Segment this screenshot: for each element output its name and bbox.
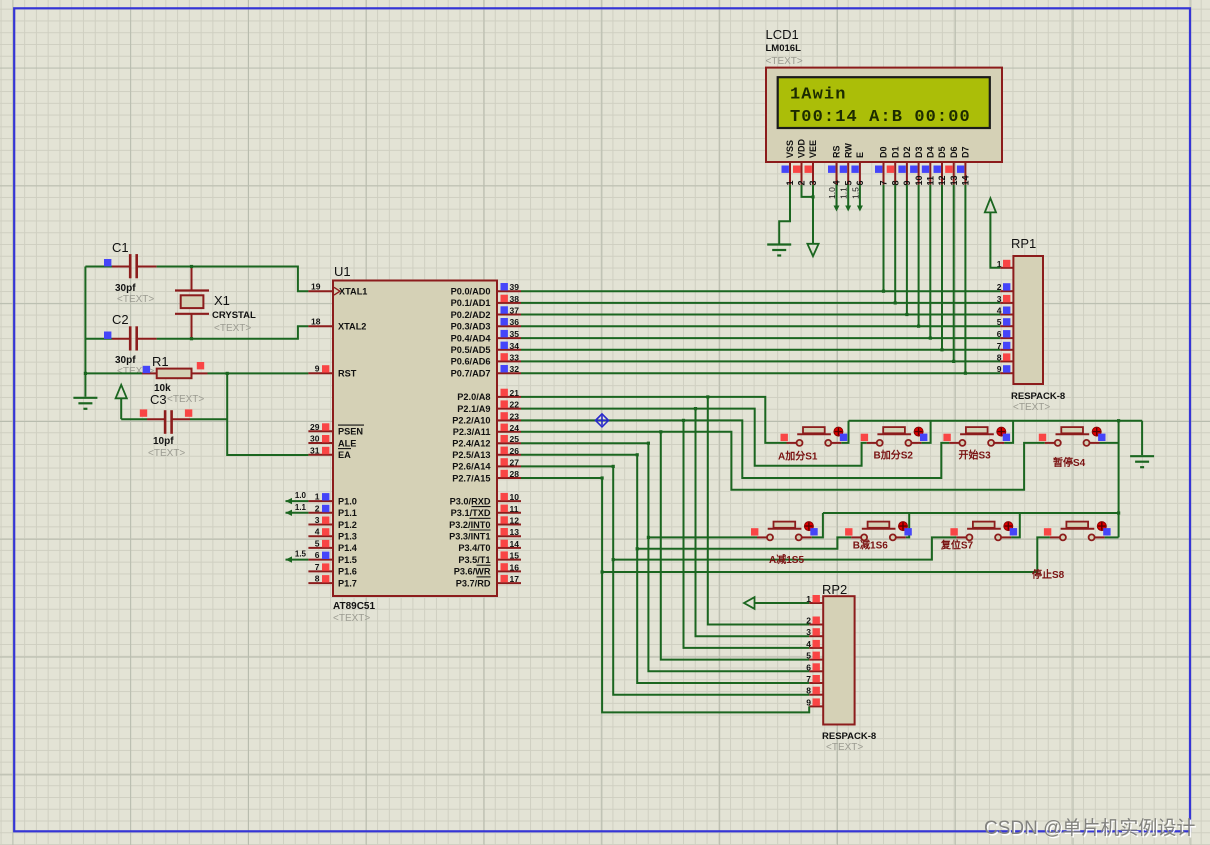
svg-text:P3.2/INT0: P3.2/INT0	[449, 520, 490, 530]
wire P2.4 to S5	[521, 442, 648, 444]
svg-text:PSEN: PSEN	[338, 427, 363, 437]
ground (left rail)	[73, 398, 97, 409]
svg-text:P3.1/TXD: P3.1/TXD	[451, 508, 491, 518]
U1 pin 25 P2.4/A12	[497, 442, 521, 444]
svg-text:P0.4/AD4: P0.4/AD4	[451, 333, 492, 343]
svg-text:C2: C2	[112, 312, 129, 327]
svg-text:D4: D4	[926, 146, 936, 158]
svg-text:21: 21	[510, 388, 520, 398]
wire P2.5 to S6 (via row 548.8)	[521, 454, 637, 456]
U1 pin 27 P2.6/A14	[497, 465, 521, 467]
U1 pin 13 P3.3/INT1	[497, 535, 521, 537]
wire S4 right to common vertical	[1100, 442, 1119, 444]
U1 pin 30 ALE	[308, 442, 333, 444]
svg-text:P3.7/RD: P3.7/RD	[456, 578, 491, 588]
wire P2.2 feeder to RP2 pin 4	[684, 420, 810, 648]
svg-text:P1.7: P1.7	[338, 578, 357, 588]
svg-text:17: 17	[510, 574, 520, 584]
input terminal (left arrow, RP2 pin1)	[754, 602, 809, 604]
push button S7	[950, 522, 1017, 541]
svg-text:28: 28	[510, 469, 520, 479]
svg-text:8: 8	[997, 352, 1002, 362]
net label 1.5 terminal wire	[286, 559, 309, 561]
svg-text:暂停S4: 暂停S4	[1053, 456, 1086, 469]
wire LCD D3 to P0.3 bus	[918, 185, 920, 327]
svg-text:AT89C51: AT89C51	[333, 601, 375, 612]
svg-text:P3.4/T0: P3.4/T0	[458, 543, 490, 553]
svg-text:<TEXT>: <TEXT>	[117, 294, 154, 305]
U1 pin 31 EA	[308, 454, 333, 456]
svg-text:37: 37	[510, 306, 520, 316]
svg-text:13: 13	[510, 527, 520, 537]
svg-text:12: 12	[510, 516, 520, 526]
svg-text:22: 22	[510, 400, 520, 410]
svg-text:LCD1: LCD1	[766, 27, 799, 42]
svg-text:35: 35	[510, 329, 520, 339]
wire C2 row to XTAL2	[85, 338, 112, 340]
svg-text:33: 33	[510, 352, 520, 362]
wire EA branch	[227, 373, 308, 455]
svg-text:P2.4/A12: P2.4/A12	[452, 439, 490, 449]
wire left ground rail	[84, 267, 86, 397]
wire P0.3 row to RP1 pin 5	[521, 325, 1000, 327]
RP1 pin 7	[1000, 349, 1013, 351]
RP2 pin 6	[809, 670, 823, 672]
svg-text:P0.7/AD7: P0.7/AD7	[451, 369, 491, 379]
svg-text:4: 4	[997, 306, 1002, 316]
ground (button bus)	[1130, 456, 1154, 467]
svg-text:<TEXT>: <TEXT>	[167, 394, 204, 405]
U1 pin 38 P0.1/AD1	[497, 302, 521, 304]
push button S4	[1039, 427, 1106, 446]
RP1 pin 2	[1000, 290, 1013, 292]
wire P0.1 row to RP1 pin 3	[521, 302, 1000, 304]
U1 pin 29 PSEN	[308, 430, 333, 432]
svg-text:1.1: 1.1	[839, 187, 849, 199]
svg-text:U1: U1	[334, 264, 351, 279]
RP2 pin 9	[809, 705, 823, 707]
respack RP1 RESPACK-8 body	[1013, 256, 1043, 384]
U1 pin 23 P2.2/A10	[497, 419, 521, 421]
svg-text:P1.6: P1.6	[338, 567, 357, 577]
LCD1 pin 2 VDD	[801, 162, 803, 185]
wire LCD D7 to P0.7 bus	[964, 185, 966, 374]
RP2 pin 4	[809, 647, 823, 649]
wire P2.6 to S7 (via row 559.6)	[521, 465, 613, 467]
wire LCD D2 to P0.2 bus	[906, 185, 908, 315]
LCD1 pin 12 D5	[941, 162, 943, 185]
U1 pin 18 XTAL2	[308, 325, 333, 327]
wire LCD D5 to P0.5 bus	[941, 185, 943, 350]
svg-text:P1.2: P1.2	[338, 520, 357, 530]
svg-text:9: 9	[315, 364, 320, 374]
svg-text:13: 13	[949, 175, 959, 185]
svg-text:P2.2/A10: P2.2/A10	[452, 416, 490, 426]
svg-text:15: 15	[510, 551, 520, 561]
svg-text:P1.1: P1.1	[338, 508, 357, 518]
wire S5 right riser	[812, 513, 823, 537]
svg-text:32: 32	[510, 364, 520, 374]
svg-text:A加分S1: A加分S1	[778, 450, 818, 463]
svg-text:14: 14	[961, 175, 971, 185]
svg-text:<TEXT>: <TEXT>	[214, 323, 251, 334]
wire S8 right to common vertical	[1105, 536, 1119, 538]
svg-text:C1: C1	[112, 240, 129, 255]
svg-text:3: 3	[315, 515, 320, 525]
wire S5 row from feeder	[648, 536, 757, 538]
wire LCD VEE to power (down arrow)	[812, 185, 814, 244]
wire P2.4 feeder to RP2 pin 6	[648, 443, 809, 671]
wire RST row	[85, 372, 142, 374]
U1 pin 12 P3.2/INT0	[497, 524, 521, 526]
svg-text:27: 27	[510, 457, 520, 467]
svg-text:R1: R1	[152, 354, 169, 369]
wire P0.5 row to RP1 pin 7	[521, 349, 1000, 351]
U1 pin 24 P2.3/A11	[497, 431, 521, 433]
junction	[647, 536, 650, 539]
svg-text:P3.3/INT1: P3.3/INT1	[449, 532, 490, 542]
svg-text:7: 7	[315, 562, 320, 572]
wire LCD RW net 1.1	[847, 185, 849, 210]
U1 pin 28 P2.7/A15	[497, 477, 521, 479]
capacitor C3	[121, 418, 147, 420]
RP2 pin 2	[809, 624, 823, 626]
U1 pin 19 XTAL1	[308, 290, 333, 292]
capacitor C2	[130, 326, 137, 350]
svg-text:34: 34	[510, 341, 520, 351]
svg-text:1.1: 1.1	[295, 503, 307, 512]
svg-text:36: 36	[510, 317, 520, 327]
svg-text:9: 9	[806, 697, 811, 707]
svg-text:D2: D2	[902, 146, 912, 158]
svg-text:P0.2/AD2: P0.2/AD2	[451, 310, 491, 320]
svg-text:16: 16	[510, 562, 520, 572]
respack RP2 RESPACK-8 body	[823, 596, 854, 724]
RP2 pin 1	[809, 602, 823, 604]
svg-text:1.5: 1.5	[295, 550, 307, 559]
svg-text:29: 29	[310, 422, 320, 432]
svg-text:12: 12	[937, 175, 947, 185]
RP1 pin 8	[1000, 360, 1013, 362]
junction	[636, 547, 639, 550]
LCD1 pin 10 D3	[918, 162, 920, 185]
ground (LCD VSS)	[767, 245, 791, 256]
origin marker (blue diamond on P2.2 wire)	[596, 414, 609, 427]
wire S6 right riser	[906, 513, 909, 537]
RP2 pin 5	[809, 659, 823, 661]
junction	[601, 570, 604, 573]
svg-text:1Awin: 1Awin	[790, 86, 847, 105]
LCD1 pin 13 D6	[953, 162, 955, 185]
svg-text:<TEXT>: <TEXT>	[333, 613, 370, 624]
wire P0.7 row to RP1 pin 9	[521, 372, 1000, 374]
crystal X1	[191, 267, 193, 291]
U1 pin 15 P3.5/T1	[497, 559, 521, 561]
U1 pin 32 P0.7/AD7	[497, 372, 521, 374]
svg-text:24: 24	[510, 423, 520, 433]
svg-text:LM016L: LM016L	[766, 43, 802, 54]
wire LCD D6 to P0.6 bus	[953, 185, 955, 362]
svg-text:5: 5	[315, 538, 320, 548]
svg-text:18: 18	[311, 317, 321, 327]
svg-text:复位S7: 复位S7	[940, 539, 974, 552]
wire P2.0 feeder to RP2 pin 2	[708, 397, 809, 625]
wire ground drop (top bus)	[1141, 421, 1143, 456]
svg-text:ALE: ALE	[338, 438, 356, 448]
RP2 pin 8	[809, 694, 823, 696]
mcu U1 AT89C51 body	[333, 281, 497, 597]
wire P2.1 to S2 (via row 465.8)	[521, 409, 867, 466]
svg-text:26: 26	[510, 446, 520, 456]
svg-text:9: 9	[997, 364, 1002, 374]
svg-text:P3.0/RXD: P3.0/RXD	[450, 496, 491, 506]
wire top ground bus	[849, 420, 1143, 422]
wire right common vertical	[1118, 421, 1120, 538]
svg-text:P2.6/A14: P2.6/A14	[452, 462, 491, 472]
wire LCD D1 to P0.1 bus	[894, 185, 896, 303]
svg-text:P2.7/A15: P2.7/A15	[452, 473, 490, 483]
svg-text:25: 25	[510, 434, 520, 444]
svg-text:31: 31	[310, 445, 320, 455]
U1 pin 26 P2.5/A13	[497, 454, 521, 456]
push button S3	[943, 427, 1010, 446]
svg-text:<TEXT>: <TEXT>	[766, 56, 803, 67]
LCD1 pin 14 D7	[964, 162, 966, 185]
svg-text:E: E	[855, 152, 865, 158]
LCD1 pin 5 RW	[847, 162, 849, 185]
svg-text:P0.5/AD5: P0.5/AD5	[451, 345, 491, 355]
U1 pin 33 P0.6/AD6	[497, 360, 521, 362]
RP1 pin 1	[1000, 267, 1013, 269]
svg-text:5: 5	[997, 317, 1002, 327]
svg-text:X1: X1	[214, 293, 230, 308]
wire P0.0 row to RP1 pin 2	[521, 290, 1000, 292]
svg-text:2: 2	[315, 503, 320, 513]
svg-text:RP1: RP1	[1011, 236, 1036, 251]
wire P2.6 feeder to RP2 pin 8	[613, 466, 809, 694]
svg-text:P2.1/A9: P2.1/A9	[457, 404, 490, 414]
push button S6	[845, 522, 912, 541]
svg-text:VEE: VEE	[808, 140, 818, 158]
wire P2.2 to S3 (via row 478.0)	[521, 420, 949, 478]
watermark	[984, 813, 1195, 840]
U1 pin 7 P1.6	[308, 570, 333, 572]
svg-text:RW: RW	[843, 143, 853, 158]
svg-text:D6: D6	[949, 146, 959, 158]
LCD1 pin 1 VSS	[789, 162, 791, 185]
svg-text:P0.1/AD1: P0.1/AD1	[451, 298, 491, 308]
svg-text:<TEXT>: <TEXT>	[1013, 402, 1050, 413]
wire C1 row to XTAL1	[85, 266, 112, 268]
wire S2 right riser	[921, 421, 930, 443]
push button S5	[751, 522, 818, 541]
power terminal (up arrow, RP1 pin1)	[990, 212, 1000, 267]
svg-text:D3: D3	[914, 146, 924, 158]
lcd LCD1 LM016L body	[766, 68, 1002, 162]
svg-text:P2.3/A11: P2.3/A11	[453, 427, 491, 437]
RP1 pin 3	[1000, 302, 1013, 304]
svg-text:10pf: 10pf	[153, 436, 174, 447]
LCD1 pin 4 RS	[836, 162, 838, 185]
svg-text:23: 23	[510, 411, 520, 421]
svg-text:39: 39	[510, 282, 520, 292]
LCD1 pin 9 D2	[906, 162, 908, 185]
LCD1 pin 3 VEE	[812, 162, 814, 185]
RP2 pin 3	[809, 635, 823, 637]
U1 pin 14 P3.4/T0	[497, 547, 521, 549]
U1 pin 10 P3.0/RXD	[497, 500, 521, 502]
wire P0.4 row to RP1 pin 6	[521, 337, 1000, 339]
RP1 pin 9	[1000, 372, 1013, 374]
svg-text:P0.0/AD0: P0.0/AD0	[451, 287, 491, 297]
wire LCD D0 to P0.0 bus	[883, 185, 885, 292]
wire P2.3 to S4 (via row 489.8)	[521, 432, 1045, 490]
RP1 pin 5	[1000, 325, 1013, 327]
svg-text:VSS: VSS	[785, 140, 795, 158]
svg-text:P0.6/AD6: P0.6/AD6	[451, 357, 491, 367]
svg-text:30pf: 30pf	[115, 283, 136, 294]
svg-text:RP2: RP2	[822, 582, 847, 597]
U1 pin 22 P2.1/A9	[497, 408, 521, 410]
svg-text:A减1S5: A减1S5	[769, 553, 804, 566]
U1 pin 8 P1.7	[308, 582, 333, 584]
svg-text:38: 38	[510, 294, 520, 304]
wire LCD D4 to P0.4 bus	[929, 185, 931, 339]
svg-text:<TEXT>: <TEXT>	[826, 742, 863, 753]
svg-text:3: 3	[997, 294, 1002, 304]
svg-text:D5: D5	[937, 146, 947, 158]
svg-text:30: 30	[310, 434, 320, 444]
svg-text:C3: C3	[150, 392, 167, 407]
U1 pin 21 P2.0/A8	[497, 396, 521, 398]
svg-text:10: 10	[914, 175, 924, 185]
svg-text:D7: D7	[961, 146, 971, 158]
svg-text:4: 4	[315, 527, 320, 537]
svg-text:D0: D0	[879, 146, 889, 158]
svg-text:1: 1	[315, 492, 320, 502]
U1 pin 6 P1.5	[308, 559, 333, 561]
U1 pin 35 P0.4/AD4	[497, 337, 521, 339]
wire S7 right riser	[1011, 513, 1020, 537]
wire bottom ground bus	[823, 512, 1119, 514]
U1 pin 39 P0.0/AD0	[497, 290, 521, 292]
wire LCD E net 1.5	[859, 185, 861, 210]
svg-text:VDD: VDD	[797, 138, 807, 158]
svg-text:P1.3: P1.3	[338, 532, 357, 542]
svg-text:T00:14 A:B 00:00: T00:14 A:B 00:00	[790, 108, 971, 127]
svg-text:B加分S2: B加分S2	[874, 449, 914, 462]
push button S2	[861, 427, 928, 446]
wire P0.6 row to RP1 pin 8	[521, 360, 1000, 362]
lcd screen	[778, 77, 990, 128]
svg-text:10: 10	[510, 492, 520, 502]
svg-text:30pf: 30pf	[115, 355, 136, 366]
svg-text:1.5: 1.5	[850, 187, 860, 199]
wire P2.3 feeder to RP2 pin 5	[661, 432, 809, 660]
wire LCD VDD	[802, 185, 814, 197]
svg-text:P1.4: P1.4	[338, 543, 358, 553]
U1 pin 37 P0.2/AD2	[497, 314, 521, 316]
svg-text:P3.6/WR: P3.6/WR	[454, 567, 491, 577]
svg-text:D1: D1	[890, 146, 900, 158]
svg-text:P1.0: P1.0	[338, 496, 357, 506]
U1 pin 2 P1.1	[308, 512, 333, 514]
U1 pin 4 P1.3	[308, 535, 333, 537]
power terminal (up arrow, C3 left)	[120, 398, 122, 419]
svg-text:11: 11	[926, 176, 936, 186]
LCD1 pin 11 D4	[929, 162, 931, 185]
svg-text:RESPACK-8: RESPACK-8	[1011, 391, 1065, 402]
svg-text:CRYSTAL: CRYSTAL	[212, 310, 256, 321]
svg-text:14: 14	[510, 539, 520, 549]
wire P2.1 feeder to RP2 pin 3	[696, 409, 810, 637]
wire P2.7 to S8 (via row 572.0)	[521, 477, 602, 479]
svg-text:RESPACK-8: RESPACK-8	[822, 731, 876, 742]
svg-text:6: 6	[997, 329, 1002, 339]
svg-text:2: 2	[997, 282, 1002, 292]
wire P2.0 to S1 (corner 765.3)	[521, 397, 787, 443]
wire P2.5 feeder to RP2 pin 7	[637, 455, 809, 683]
svg-text:1.0: 1.0	[295, 491, 307, 500]
junction	[612, 558, 615, 561]
LCD1 pin 6 E	[859, 162, 861, 185]
LCD1 pin 8 D1	[894, 162, 896, 185]
push button S8	[1044, 522, 1111, 541]
svg-text:RST: RST	[338, 369, 357, 379]
svg-text:P0.3/AD3: P0.3/AD3	[451, 322, 491, 332]
wire P2.7 feeder to RP2 pin 9	[602, 478, 809, 712]
svg-text:RS: RS	[832, 145, 842, 158]
U1 pin 3 P1.2	[308, 524, 333, 526]
push button S1	[781, 427, 848, 446]
U1 pin 16 P3.6/WR	[497, 570, 521, 572]
svg-text:7: 7	[997, 341, 1002, 351]
svg-text:XTAL2: XTAL2	[338, 322, 366, 332]
U1 clock marker XTAL1	[334, 287, 340, 295]
svg-text:B减1S6: B减1S6	[853, 539, 888, 552]
U1 pin 9 RST	[308, 372, 333, 374]
svg-text:P3.5/T1: P3.5/T1	[458, 555, 490, 565]
svg-text:19: 19	[311, 282, 321, 292]
svg-text:<TEXT>: <TEXT>	[148, 448, 185, 459]
U1 pin 34 P0.5/AD5	[497, 349, 521, 351]
svg-text:EA: EA	[338, 450, 351, 460]
svg-text:停止S8: 停止S8	[1032, 568, 1065, 581]
svg-text:11: 11	[510, 504, 519, 514]
net label 1.0 terminal wire	[286, 500, 309, 502]
RP2 pin 7	[809, 682, 823, 684]
U1 pin 17 P3.7/RD	[497, 582, 521, 584]
svg-text:6: 6	[315, 550, 320, 560]
svg-text:P2.0/A8: P2.0/A8	[457, 392, 490, 402]
RP1 pin 6	[1000, 337, 1013, 339]
svg-text:P2.5/A13: P2.5/A13	[452, 450, 490, 460]
wire S1 right riser	[841, 421, 848, 443]
resistor R1	[157, 369, 192, 379]
svg-text:XTAL1: XTAL1	[339, 287, 367, 297]
U1 pin 36 P0.3/AD3	[497, 325, 521, 327]
LCD1 pin 7 D0	[883, 162, 885, 185]
wire P0.2 row to RP1 pin 4	[521, 314, 1000, 316]
svg-text:开始S3: 开始S3	[959, 449, 992, 462]
wire LCD RS net 1.0	[836, 185, 838, 210]
wire LCD VSS to ground	[779, 185, 790, 244]
wire S3 right riser	[1004, 421, 1013, 443]
net label 1.1 terminal wire	[286, 512, 309, 514]
U1 pin 1 P1.0	[308, 500, 333, 502]
svg-text:8: 8	[315, 574, 320, 584]
U1 pin 11 P3.1/TXD	[497, 512, 521, 514]
